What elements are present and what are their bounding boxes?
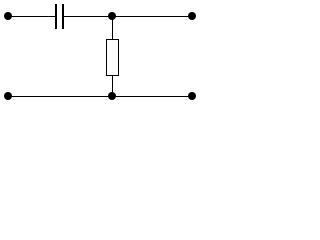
wire top-left: left terminal to capacitor: [6, 16, 55, 18]
node: top junction: [108, 12, 116, 20]
wire vertical lower: resistor to bottom junction: [112, 75, 114, 97]
resistor R1: [107, 40, 119, 76]
capacitor C1 left plate: [55, 4, 57, 29]
wire bottom: left terminal to right terminal: [6, 96, 194, 98]
wire top-middle: capacitor to junction node: [64, 16, 112, 18]
wire top-right: junction node to right terminal: [112, 16, 194, 18]
node: bottom-left terminal: [4, 92, 12, 100]
node: top-left terminal: [4, 12, 12, 20]
capacitor C1 right plate: [62, 4, 64, 29]
node: bottom-right terminal: [188, 92, 196, 100]
node: top-right terminal: [188, 12, 196, 20]
wire vertical upper: junction to resistor: [112, 16, 114, 40]
node: bottom junction: [108, 92, 116, 100]
